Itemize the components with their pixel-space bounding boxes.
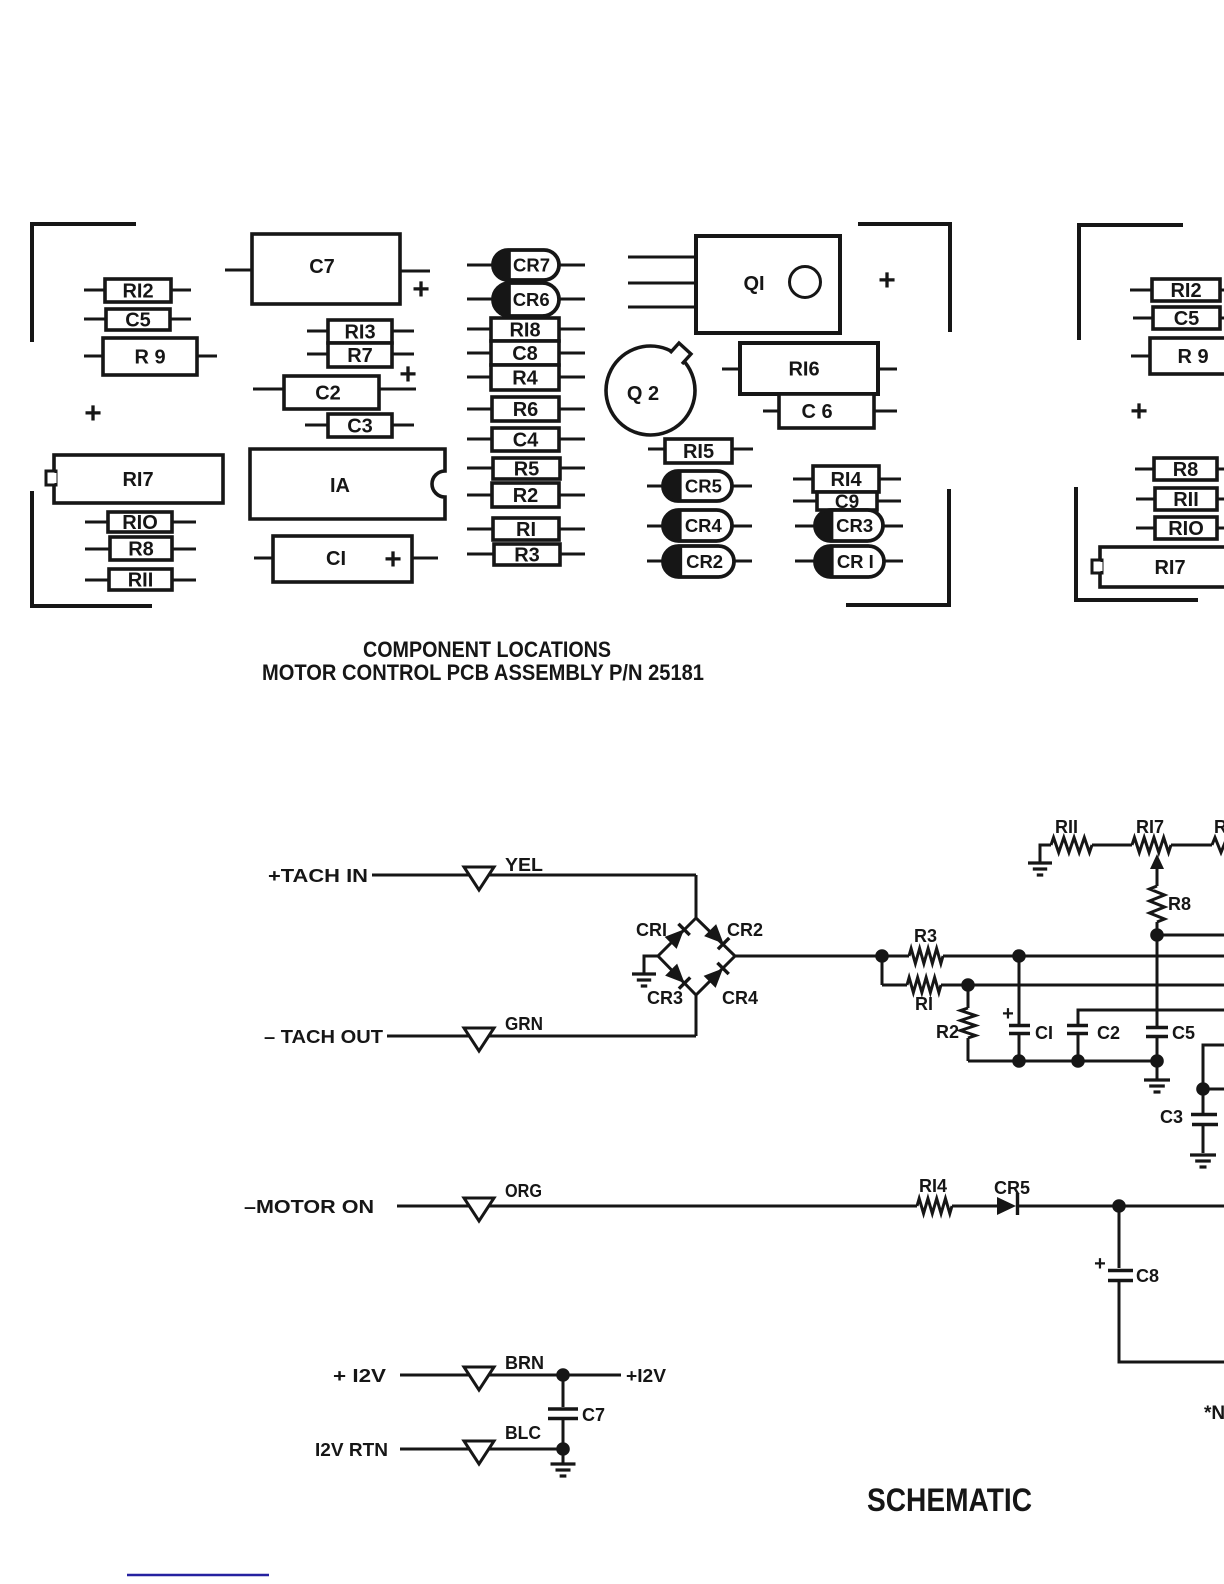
svg-text:SCHEMATIC: SCHEMATIC [867, 1482, 1032, 1518]
svg-text:R2: R2 [936, 1022, 959, 1042]
diode CR1 [665, 923, 690, 948]
svg-text:CR3: CR3 [647, 988, 683, 1008]
transistor Q2 (layout) [606, 343, 695, 435]
capacitor C1 (layout) [254, 536, 438, 582]
svg-text:RI4: RI4 [830, 469, 862, 491]
junction dot A [875, 949, 889, 963]
junction dot C1 top [1012, 949, 1026, 963]
svg-text:RII: RII [1173, 489, 1199, 511]
wire +12V stub [563, 1374, 621, 1377]
wire R11-R17 [1092, 844, 1132, 847]
svg-text:C3: C3 [347, 416, 373, 438]
junction dot C7 top [556, 1368, 570, 1382]
svg-text:Q 2: Q 2 [627, 383, 659, 405]
svg-text:R5: R5 [514, 459, 540, 481]
resistor R10 (right copy) [1136, 517, 1224, 540]
svg-text:YEL: YEL [505, 855, 543, 875]
resistor R3 (layout) [467, 544, 585, 567]
resistor R3 (schematic) [909, 949, 943, 964]
resistor R18 (layout) [467, 318, 585, 342]
label CR4 [722, 988, 758, 1008]
resistor R17 (right copy) [1092, 547, 1224, 587]
svg-text:RIO: RIO [1168, 518, 1204, 540]
diode CR6 (layout) [467, 283, 585, 316]
wire 12V RTN [400, 1448, 563, 1451]
resistor R10 (layout) [85, 512, 196, 534]
svg-text:C5: C5 [1174, 308, 1200, 330]
IC 1A (layout) [250, 449, 445, 519]
svg-text:R 9: R 9 [1177, 346, 1208, 368]
svg-text:+ I2V: + I2V [333, 1366, 386, 1386]
bottom rail [968, 1060, 1157, 1063]
resistor R12 (layout) [84, 279, 191, 303]
junction dot R2 top [961, 978, 975, 992]
ground (R11) [1028, 845, 1052, 875]
svg-text:+: + [878, 264, 896, 297]
svg-text:R6: R6 [513, 399, 539, 421]
svg-text:RI4: RI4 [919, 1176, 947, 1196]
diode CR2 (layout) [647, 546, 752, 577]
svg-text:CR4: CR4 [722, 988, 758, 1008]
wire bridge to R3 node [735, 955, 909, 958]
resistor R1 (schematic) [907, 978, 941, 993]
wire R1 to right edge [941, 984, 1224, 987]
ground (12V RTN) [551, 1449, 576, 1476]
svg-text:CR I: CR I [837, 551, 874, 572]
svg-text:R3: R3 [514, 545, 540, 567]
svg-text:R4: R4 [512, 368, 538, 390]
diode CR4 (layout) [647, 510, 752, 541]
wire R17 to right edge [1171, 844, 1212, 847]
svg-text:CR2: CR2 [686, 551, 723, 572]
svg-text:+: + [1002, 1003, 1014, 1025]
label R8 [1168, 894, 1191, 914]
svg-text:RI2: RI2 [1170, 280, 1201, 302]
transistor Q1 (layout) [628, 236, 840, 333]
svg-text:BLC: BLC [505, 1423, 541, 1443]
svg-text:+: + [84, 397, 102, 430]
svg-text:CR6: CR6 [513, 289, 550, 310]
connector triangle YEL [464, 867, 494, 890]
label R17 [1136, 817, 1164, 837]
connector triangle GRN [464, 1028, 494, 1051]
title line 2 [262, 660, 704, 685]
connector triangle BLC [464, 1441, 494, 1464]
svg-text:IA: IA [330, 475, 350, 497]
svg-text:–MOTOR ON: –MOTOR ON [244, 1197, 374, 1217]
resistor R17 (layout) [46, 455, 223, 503]
junction dot C2 bottom [1071, 1054, 1085, 1068]
ground (C5) [1144, 1080, 1170, 1092]
diode CR7 (layout) [467, 250, 585, 280]
svg-text:C8: C8 [512, 343, 538, 365]
resistor R11 (schematic) [1051, 838, 1092, 853]
diode CR4 [704, 962, 729, 987]
svg-text:MOTOR CONTROL PCB ASSEMBLY P/N: MOTOR CONTROL PCB ASSEMBLY P/N 25181 [262, 660, 704, 685]
svg-text:+TACH IN: +TACH IN [268, 866, 368, 886]
node -TACH OUT label [264, 1027, 383, 1047]
label R2 [936, 1022, 959, 1042]
label R11 [1055, 817, 1078, 837]
net label ORG [505, 1181, 542, 1201]
svg-text:RI7: RI7 [1154, 557, 1185, 579]
diode CR5 (schematic) [997, 1193, 1018, 1215]
svg-text:QI: QI [743, 273, 764, 295]
svg-text:RI3: RI3 [344, 322, 375, 344]
capacitor C4 (layout) [467, 428, 585, 452]
svg-text:R2: R2 [513, 485, 539, 507]
resistor R6 (layout) [467, 397, 585, 421]
diode bridge edges [658, 918, 735, 995]
connector triangle ORG [464, 1198, 494, 1221]
resistor R9 (right copy) [1131, 338, 1224, 374]
resistor R11 (right copy) [1136, 488, 1224, 511]
PCB outline bracket bottom-right [846, 489, 949, 605]
svg-text:RI: RI [915, 994, 933, 1014]
resistor R8 (right copy) [1135, 458, 1224, 481]
capacitor C7 (schematic) [548, 1375, 605, 1449]
net label BLC [505, 1423, 541, 1443]
polarity mark + (C7) [412, 273, 430, 306]
node +TACH IN label [268, 866, 368, 886]
svg-text:+: + [399, 358, 417, 391]
resistor R7 (layout) [307, 343, 414, 367]
bridge ground stub [644, 956, 658, 973]
svg-text:C 6: C 6 [801, 401, 832, 423]
svg-text:CI: CI [1035, 1023, 1053, 1043]
svg-text:CRI: CRI [636, 920, 667, 940]
R17 wiper arrow [1150, 854, 1164, 886]
svg-text:*N: *N [1204, 1403, 1224, 1424]
label CR5 (schematic) [994, 1178, 1030, 1198]
svg-text:CI: CI [326, 548, 346, 570]
svg-text:CR4: CR4 [685, 515, 723, 536]
PCB outline bracket bottom-left [32, 491, 152, 606]
resistor R1 (layout) [467, 518, 585, 541]
svg-text:RI6: RI6 [788, 359, 819, 381]
junction dot 12V RTN [556, 1442, 570, 1456]
svg-text:RII: RII [1055, 817, 1078, 837]
diode CR1 (layout) [795, 546, 903, 577]
svg-text:COMPONENT LOCATIONS: COMPONENT LOCATIONS [363, 637, 611, 662]
svg-text:C5: C5 [125, 310, 151, 332]
svg-text:CR5: CR5 [685, 476, 722, 497]
svg-text:RI7: RI7 [122, 469, 153, 491]
svg-text:RI8: RI8 [509, 320, 540, 342]
svg-text:C4: C4 [513, 430, 539, 452]
resistor R15 (layout) [648, 439, 753, 463]
connector triangle BRN [464, 1367, 494, 1390]
node + 12V label [333, 1366, 386, 1386]
svg-text:C7: C7 [309, 256, 335, 278]
wire +TACH IN [372, 874, 696, 877]
svg-text:C8: C8 [1136, 1266, 1159, 1286]
wire C5 to ground [1156, 1061, 1159, 1079]
wire node A to R1 [882, 984, 907, 987]
node +12V out label [626, 1366, 666, 1386]
PCB outline bracket top-left [32, 224, 136, 342]
PCB outline bracket top-left (right copy) [1079, 225, 1183, 340]
svg-text:+I2V: +I2V [626, 1366, 666, 1386]
node -MOTOR ON label [244, 1197, 374, 1217]
polarity mark + (top-right) [878, 264, 896, 297]
capacitor C1 (schematic) [1002, 956, 1053, 1061]
ground (bridge) [632, 974, 656, 986]
junction dot C8 top [1112, 1199, 1126, 1213]
wire to bridge bottom [695, 994, 698, 1037]
capacitor C2 (layout) [253, 376, 416, 409]
title line 1 [363, 637, 611, 662]
capacitor C9 (layout) [793, 492, 901, 513]
diode CR5 (layout) [647, 471, 752, 501]
svg-text:C3: C3 [1160, 1107, 1183, 1127]
wire +12V [400, 1374, 563, 1377]
node 12V RTN label [315, 1440, 388, 1460]
svg-text:RIO: RIO [122, 512, 158, 534]
resistor clipped at edge [1212, 838, 1224, 853]
PCB outline bracket bottom-left (right copy) [1076, 487, 1198, 600]
clipped note text [1204, 1403, 1224, 1424]
net label BRN [505, 1353, 544, 1373]
svg-text:C7: C7 [582, 1405, 605, 1425]
wire C8 bottom [1119, 1282, 1224, 1362]
net label YEL [505, 855, 543, 875]
resistor R8 (schematic) [1150, 886, 1165, 935]
schematic title [867, 1482, 1032, 1518]
capacitor C5 (layout) [84, 309, 191, 332]
svg-text:+: + [1094, 1253, 1106, 1275]
wire -TACH OUT [387, 1035, 696, 1038]
resistor R14 (schematic) [917, 1199, 952, 1214]
polarity mark + (left) [84, 397, 102, 430]
svg-text:RI5: RI5 [683, 441, 714, 463]
label clipped R [1214, 817, 1224, 837]
resistor R2 (schematic) [961, 985, 976, 1061]
svg-text:C5: C5 [1172, 1023, 1195, 1043]
svg-text:ORG: ORG [505, 1181, 542, 1201]
wire to bridge top [695, 875, 698, 920]
junction dot C5 bottom [1150, 1054, 1164, 1068]
svg-text:RI: RI [516, 519, 536, 541]
resistor R16 (layout) [722, 343, 897, 394]
svg-text:C2: C2 [315, 383, 341, 405]
capacitor C5 (schematic) [1146, 935, 1195, 1061]
resistor R11 (layout) [85, 569, 196, 592]
capacitor C6 (layout) [763, 394, 897, 428]
svg-text:RI2: RI2 [122, 281, 153, 303]
resistor R17 (schematic) [1132, 838, 1171, 853]
capacitor C7 (layout) [225, 234, 430, 304]
label CR1 [636, 920, 667, 940]
polarity mark + (right copy) [1130, 395, 1148, 428]
svg-text:BRN: BRN [505, 1353, 544, 1373]
resistor R4 (layout) [467, 365, 585, 390]
label R14 [919, 1176, 947, 1196]
resistor R8 (layout) [85, 537, 196, 561]
wire -MOTOR ON [397, 1205, 917, 1208]
svg-text:+: + [1130, 395, 1148, 428]
label CR3 [647, 988, 683, 1008]
diode CR3 [665, 964, 690, 989]
capacitor C3 (schematic) [1160, 1045, 1224, 1167]
svg-text:C2: C2 [1097, 1023, 1120, 1043]
wire R8 node to right edge [1157, 934, 1224, 937]
capacitor C5 (right copy) [1133, 307, 1224, 330]
svg-text:R7: R7 [347, 345, 373, 367]
svg-text:+: + [384, 543, 402, 576]
resistor R9 (layout) [84, 338, 217, 375]
capacitor C8 (layout) [467, 341, 585, 365]
capacitor C8 (schematic) [1094, 1253, 1159, 1286]
svg-text:CR3: CR3 [836, 515, 873, 536]
svg-text:– TACH OUT: – TACH OUT [264, 1027, 383, 1047]
svg-text:R8: R8 [128, 539, 154, 561]
svg-text:R: R [1214, 817, 1224, 837]
junction dot R8 bottom [1150, 928, 1164, 942]
capacitor C3 (layout) [305, 414, 414, 438]
junction dot C1 bottom [1012, 1054, 1026, 1068]
blue underline mark [127, 1574, 269, 1577]
wire R3 to right edge [943, 955, 1224, 958]
svg-text:I2V RTN: I2V RTN [315, 1440, 388, 1460]
diode CR2 [704, 924, 729, 949]
svg-text:R 9: R 9 [134, 347, 165, 369]
svg-text:CR2: CR2 [727, 920, 763, 940]
resistor R12 (right copy) [1130, 279, 1224, 302]
svg-text:+: + [412, 273, 430, 306]
diode CR3 (layout) [795, 510, 903, 541]
resistor R2 (layout) [467, 483, 585, 507]
wire R14-CR5 [952, 1205, 998, 1208]
net label GRN [505, 1014, 543, 1034]
wire C8 down [1118, 1206, 1121, 1268]
svg-text:R3: R3 [914, 926, 937, 946]
polarity mark + (C2) [399, 358, 417, 391]
svg-text:RII: RII [128, 570, 154, 592]
label R3 [914, 926, 937, 946]
svg-text:CR5: CR5 [994, 1178, 1030, 1198]
svg-text:R8: R8 [1173, 459, 1199, 481]
resistor R13 (layout) [307, 320, 414, 344]
label R1 [915, 994, 933, 1014]
wire node A down [881, 956, 884, 985]
wire CR5 to node [1019, 1205, 1224, 1208]
resistor R14 (layout) [793, 466, 901, 492]
svg-text:R8: R8 [1168, 894, 1191, 914]
svg-text:GRN: GRN [505, 1014, 543, 1034]
svg-text:RI7: RI7 [1136, 817, 1164, 837]
svg-text:CR7: CR7 [513, 255, 550, 276]
capacitor C2 (schematic) [1067, 1010, 1224, 1061]
label CR2 [727, 920, 763, 940]
PCB outline bracket top-right [858, 224, 950, 332]
resistor R5 (layout) [467, 458, 585, 481]
